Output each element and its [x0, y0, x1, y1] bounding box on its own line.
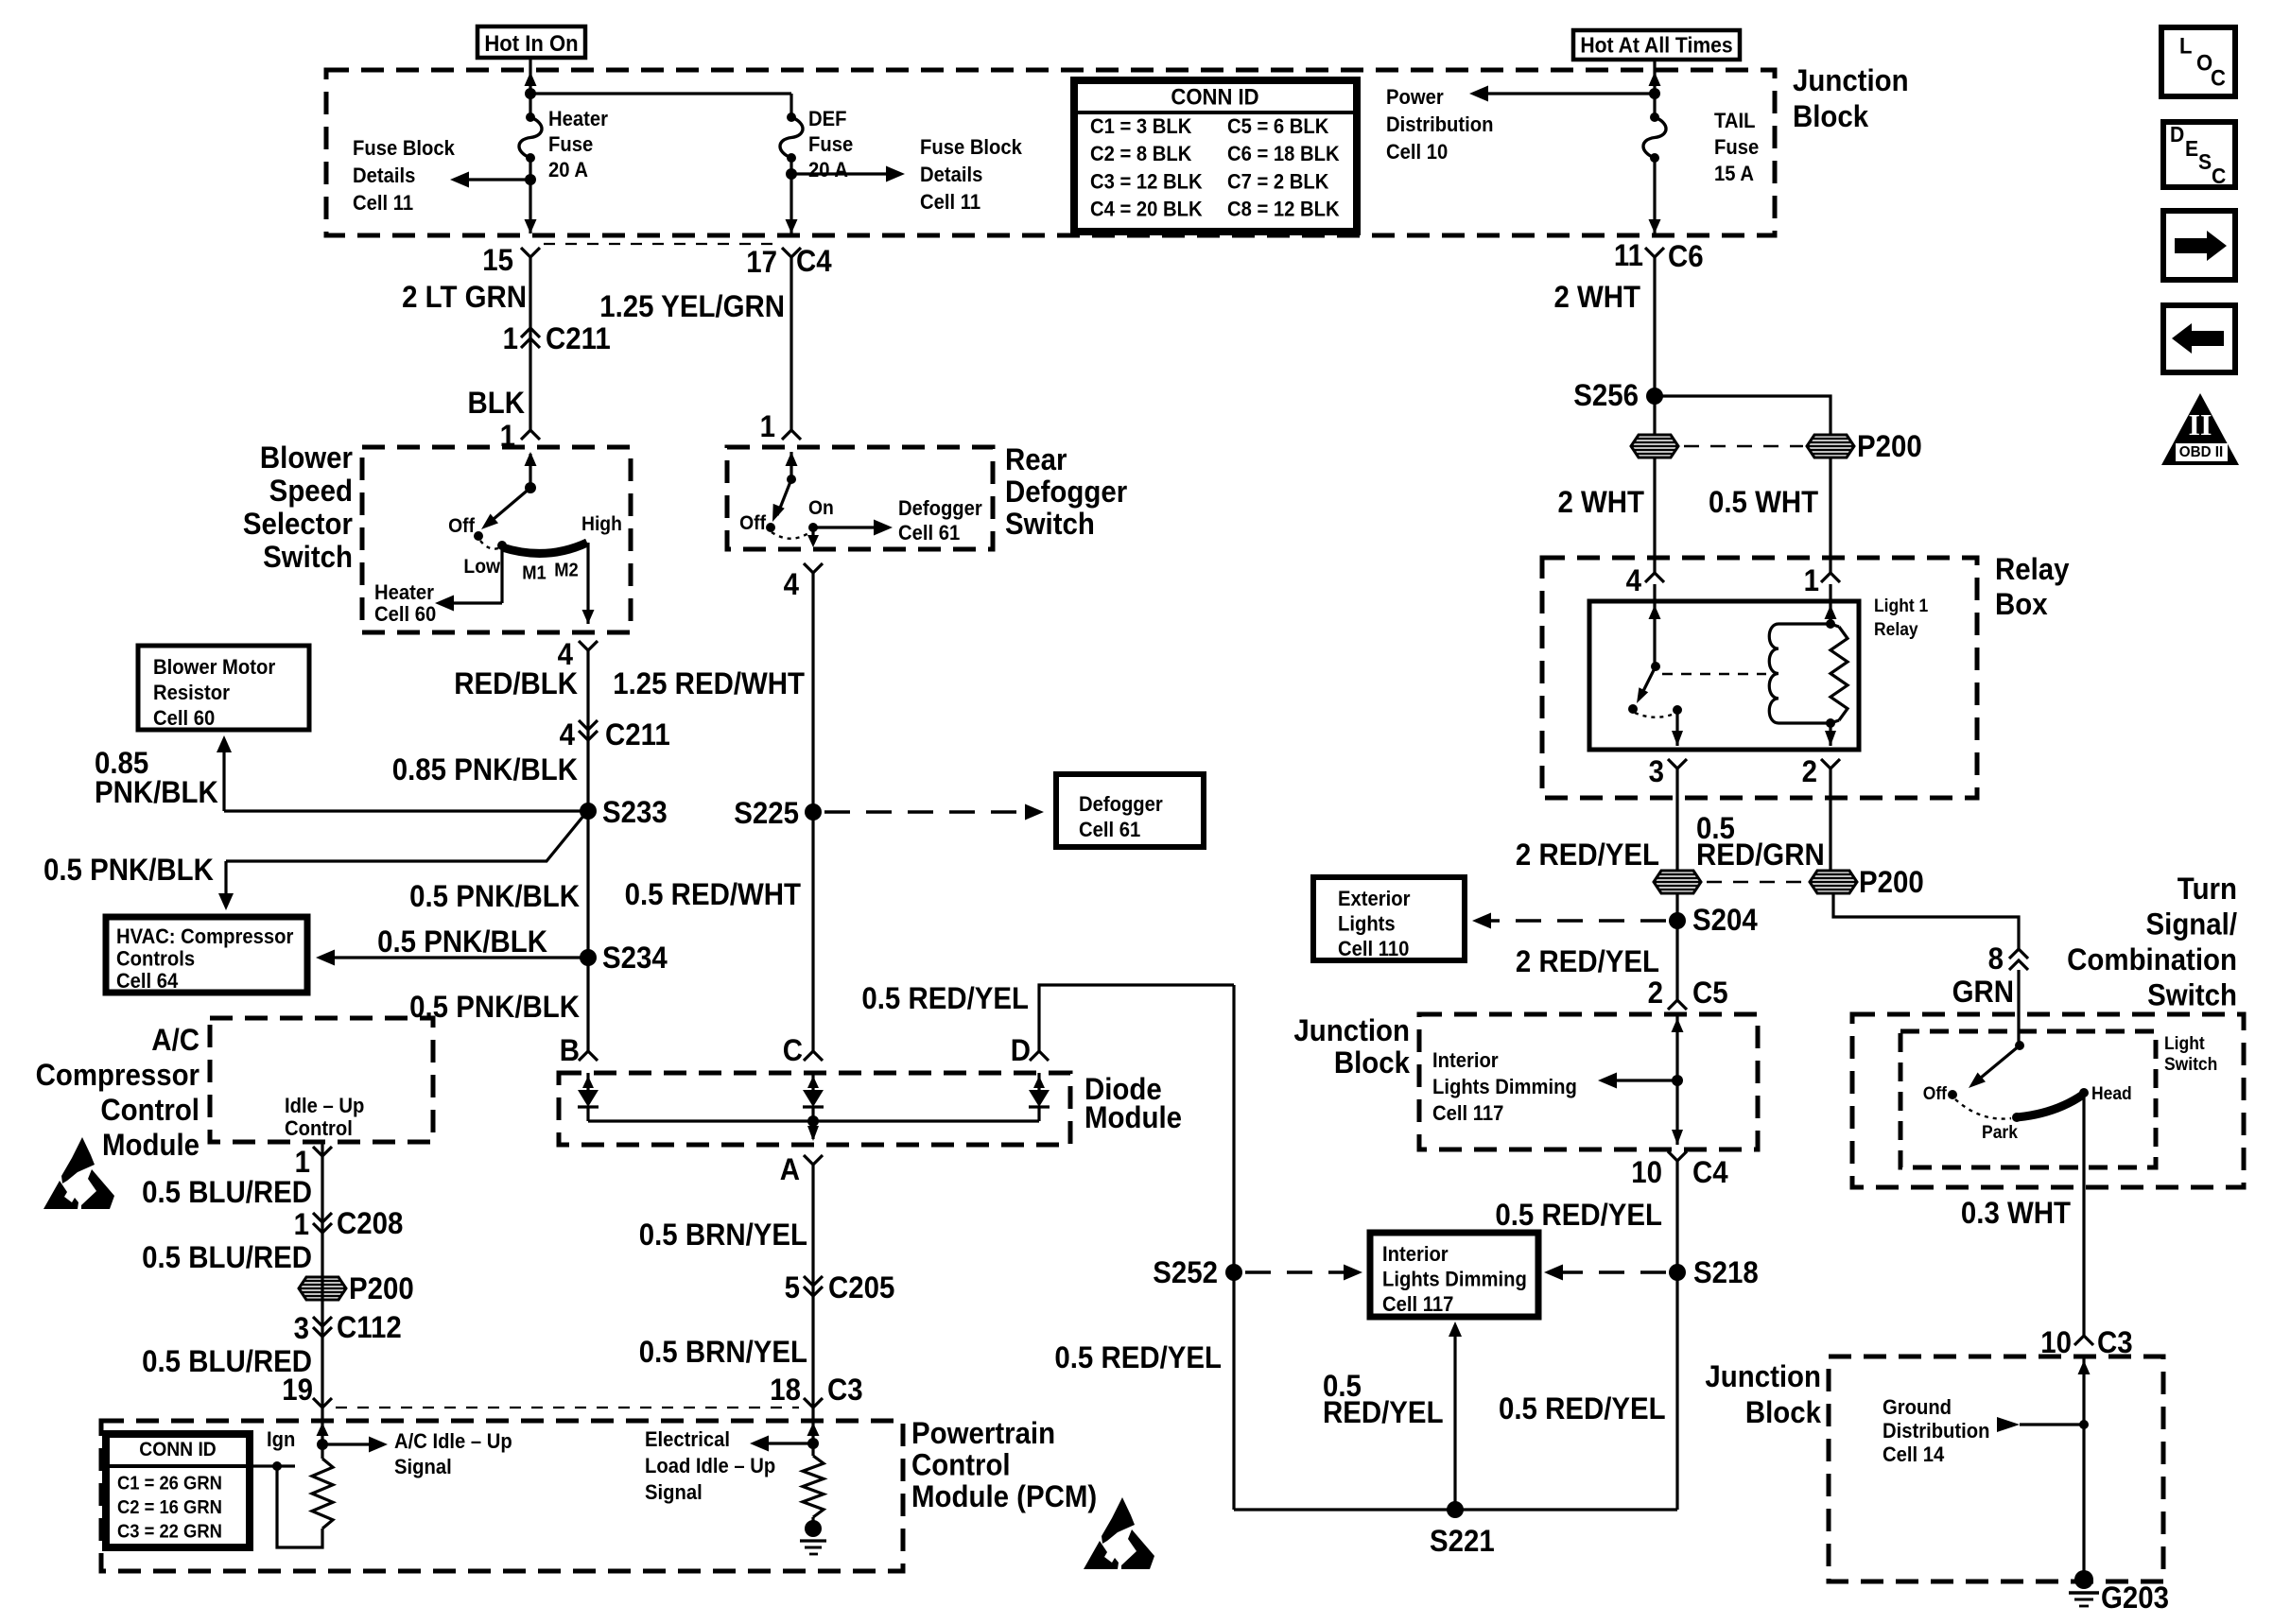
wire TAIL fuse exits junction block [1649, 219, 1661, 233]
connector C211 pin 4 [579, 720, 598, 730]
svg-text:C8 = 12 BLK: C8 = 12 BLK [1227, 199, 1340, 221]
light switch arm arrow [1975, 1045, 2020, 1082]
svg-text:2 WHT: 2 WHT [1557, 485, 1644, 519]
svg-text:C6: C6 [1668, 239, 1704, 273]
connector pin 2 C5 into junction block [1668, 1000, 1687, 1010]
svg-text:2: 2 [1802, 754, 1817, 788]
svg-text:8: 8 [1988, 942, 2004, 976]
svg-text:A: A [780, 1152, 800, 1186]
svg-text:S256: S256 [1573, 378, 1639, 412]
wire through junction block with up arrow [1675, 1016, 1678, 1080]
wire 1.25 YEL/GRN [789, 257, 792, 430]
wire into blower switch with up arrow [529, 454, 531, 488]
relay contact (NC) [1628, 704, 1638, 714]
node coil top [1826, 619, 1835, 629]
svg-text:Turn: Turn [2178, 872, 2237, 906]
wire 18 into PCM with up arrow [811, 1408, 814, 1443]
node S204 [1675, 893, 1678, 1000]
label box Hot At All Times [1573, 30, 1740, 60]
wire heater fuse exits junction block [525, 219, 537, 233]
dotted travel arc (relay contacts) [1635, 713, 1674, 717]
svg-text:Control: Control [911, 1447, 1011, 1481]
icon LOC [2161, 27, 2235, 96]
svg-text:Fuse Block: Fuse Block [353, 137, 455, 160]
svg-text:C3: C3 [827, 1373, 863, 1407]
connector P200 pair (front harness) [1654, 871, 1701, 893]
node blower switch pivot [525, 482, 536, 493]
svg-text:0.5 PNK/BLK: 0.5 PNK/BLK [409, 879, 580, 913]
relay box dashed outline [1542, 558, 1977, 798]
svg-text:Power: Power [1386, 86, 1444, 109]
svg-text:0.5 RED/YEL: 0.5 RED/YEL [1054, 1340, 1222, 1374]
svg-text:Cell 117: Cell 117 [1382, 1293, 1453, 1316]
diode under pin B [586, 1073, 589, 1090]
switch arm arrow to Off [487, 488, 530, 525]
svg-text:0.5 BRN/YEL: 0.5 BRN/YEL [639, 1218, 807, 1252]
svg-text:Low: Low [463, 557, 500, 579]
dotted travel arc Off-Low (blower) [480, 541, 498, 549]
connector pin 18 C3 into PCM [804, 1398, 823, 1408]
junction block (top) dashed outline [326, 70, 1775, 235]
svg-text:0.3 WHT: 0.3 WHT [1961, 1196, 2071, 1230]
svg-text:Light: Light [2164, 1032, 2205, 1053]
svg-text:A/C Idle – Up: A/C Idle – Up [394, 1430, 512, 1453]
svg-text:2 RED/YEL: 2 RED/YEL [1516, 838, 1659, 872]
powertrain control module dashed box [101, 1421, 903, 1571]
svg-text:Heater: Heater [374, 581, 434, 604]
svg-text:C3 = 22 GRN: C3 = 22 GRN [117, 1522, 222, 1543]
svg-text:Details: Details [920, 164, 982, 186]
arrow to A/C Idle-Up Signal [322, 1443, 382, 1445]
svg-text:C208: C208 [337, 1206, 403, 1240]
wire 0.5 RED/YEL from diode pin D [1030, 1051, 1049, 1061]
svg-text:Blower Motor: Blower Motor [153, 656, 275, 679]
svg-text:Module: Module [102, 1128, 200, 1162]
svg-text:Hot At All Times: Hot At All Times [1580, 32, 1732, 57]
wire 0.5 BRN/YEL upper [811, 1165, 814, 1408]
svg-text:Rear: Rear [1005, 442, 1067, 476]
svg-text:Resistor: Resistor [153, 682, 230, 704]
terminal Off (defogger) [766, 523, 775, 532]
svg-text:Cell 11: Cell 11 [920, 191, 980, 214]
svg-text:M1: M1 [522, 563, 547, 584]
node DEF fuse output [786, 168, 797, 180]
svg-text:S: S [2198, 149, 2212, 174]
svg-text:11: 11 [1614, 238, 1643, 272]
node S225 [805, 803, 822, 821]
svg-text:S234: S234 [602, 941, 668, 975]
wire 0.5 RED/GRN [1829, 769, 1831, 872]
connector pin 15 (C4) [521, 248, 540, 257]
svg-text:On: On [808, 498, 834, 520]
svg-text:C: C [783, 1033, 803, 1067]
svg-text:P200: P200 [1857, 429, 1922, 463]
node ground distribution tap [2079, 1420, 2089, 1429]
dashed arrow S204 to Exterior Lights [1482, 919, 1666, 923]
dashed arrow S252 to Interior Lights Dimming [1245, 1270, 1353, 1274]
svg-text:CONN ID: CONN ID [139, 1440, 216, 1461]
connector C205 pin 5 [804, 1276, 823, 1286]
label box Hot In On [477, 26, 585, 58]
light switch dashed box [1900, 1031, 2156, 1167]
svg-text:GRN: GRN [1952, 975, 2014, 1009]
svg-text:S225: S225 [734, 796, 799, 830]
diode under pin D [1037, 1073, 1040, 1090]
svg-text:Block: Block [1334, 1045, 1411, 1080]
connector pin 3 out of relay box [1668, 759, 1687, 769]
wire Ign feed from CONN ID [250, 1464, 295, 1467]
svg-text:Junction: Junction [1793, 63, 1909, 97]
svg-text:4: 4 [560, 717, 575, 752]
svg-text:C7 = 2 BLK: C7 = 2 BLK [1227, 171, 1329, 194]
svg-text:Switch: Switch [263, 540, 353, 574]
connector pin 17 C4 [782, 248, 801, 257]
svg-text:S218: S218 [1693, 1255, 1759, 1289]
svg-text:0.5 RED/YEL: 0.5 RED/YEL [1499, 1391, 1666, 1425]
svg-text:Distribution: Distribution [1883, 1420, 1989, 1443]
svg-text:C112: C112 [337, 1310, 402, 1344]
svg-text:RED/BLK: RED/BLK [454, 666, 578, 700]
svg-text:C6 = 18 BLK: C6 = 18 BLK [1227, 143, 1340, 165]
connector pin 19 into PCM [313, 1398, 332, 1408]
svg-text:Heater: Heater [548, 108, 608, 130]
wire 0.5 WHT [1829, 458, 1831, 573]
svg-text:E: E [2185, 136, 2198, 161]
terminal Head (light switch) [2079, 1088, 2089, 1097]
svg-text:DEF: DEF [808, 108, 847, 130]
svg-text:Off: Off [1923, 1082, 1948, 1103]
svg-text:L: L [2179, 32, 2192, 58]
fuse DEF Fuse 20 A [780, 117, 803, 158]
svg-text:Signal: Signal [645, 1481, 703, 1504]
svg-text:3: 3 [294, 1311, 309, 1345]
svg-text:C2 = 16 GRN: C2 = 16 GRN [117, 1498, 222, 1519]
wire diode bus [588, 1119, 1039, 1122]
svg-text:Switch: Switch [2147, 977, 2237, 1011]
connector pin 1 into blower switch [521, 430, 540, 440]
arrow On to Defogger Cell 61 [813, 526, 885, 528]
svg-text:Head: Head [2091, 1082, 2132, 1103]
wire from Hot At All Times into junction block [1653, 60, 1656, 115]
wire On output exits defogger switch [811, 527, 814, 542]
svg-text:Switch: Switch [1005, 507, 1095, 541]
component box Blower Motor Resistor Cell 60 [138, 646, 309, 730]
connector pin 1 out of A/C module [313, 1147, 332, 1156]
svg-text:Light 1: Light 1 [1874, 595, 1928, 615]
connector P200 pair (IP harness) [1631, 435, 1678, 458]
arrow to Fuse Block Details Cell 11 (left) [456, 178, 530, 181]
svg-text:0.5 RED/YEL: 0.5 RED/YEL [861, 981, 1029, 1015]
svg-text:Lights Dimming: Lights Dimming [1432, 1076, 1577, 1098]
svg-text:1: 1 [503, 321, 518, 355]
svg-text:Electrical: Electrical [645, 1428, 730, 1451]
connector P200 (A/C module harness) [299, 1277, 346, 1300]
wire into light switch [2017, 970, 2020, 1045]
node heater fuse output [525, 174, 536, 185]
svg-text:Cell 11: Cell 11 [353, 192, 413, 215]
svg-text:C3 = 12 BLK: C3 = 12 BLK [1090, 171, 1203, 194]
svg-text:S252: S252 [1153, 1255, 1218, 1289]
relay coil [1778, 622, 1831, 625]
blower speed selector switch dashed box [362, 447, 631, 632]
wire 2 LT GRN [529, 257, 531, 430]
svg-text:Control: Control [100, 1093, 200, 1127]
wiper arc Low-M1-M2-High (blower) [502, 543, 587, 553]
wire 2 WHT (TAIL) [1653, 257, 1656, 435]
svg-text:Fuse: Fuse [548, 133, 593, 156]
connector pin 4 (blower out) [579, 641, 598, 650]
svg-text:C1 = 26 GRN: C1 = 26 GRN [117, 1474, 222, 1494]
node S233 [580, 803, 597, 820]
dashed arrow S218 to Interior Lights Dimming [1553, 1270, 1666, 1274]
svg-text:Box: Box [1995, 587, 2048, 621]
svg-text:15: 15 [482, 243, 513, 277]
ground G203 [2074, 1570, 2093, 1589]
A/C compressor control module dashed box [210, 1018, 433, 1142]
wire exits junction block down [1675, 1080, 1678, 1145]
svg-text:BLK: BLK [468, 386, 525, 420]
node diode bus junction [807, 1115, 819, 1127]
svg-text:C211: C211 [605, 717, 670, 752]
arrow S234 to HVAC [321, 956, 588, 959]
svg-text:C4: C4 [1692, 1155, 1728, 1189]
svg-text:Combination: Combination [2067, 942, 2237, 976]
svg-text:Distribution: Distribution [1386, 113, 1493, 136]
rear defogger switch dashed box [727, 447, 993, 549]
svg-text:C5 = 6 BLK: C5 = 6 BLK [1227, 115, 1329, 138]
svg-text:Load Idle – Up: Load Idle – Up [645, 1455, 775, 1477]
diode module dashed box [559, 1073, 1070, 1145]
node coil bottom [1826, 718, 1835, 728]
svg-text:High: High [581, 514, 622, 536]
svg-text:C1 = 3 BLK: C1 = 3 BLK [1090, 115, 1192, 138]
terminal Park (light switch) [2012, 1113, 2021, 1122]
svg-text:20 A: 20 A [548, 159, 588, 181]
svg-text:Cell 61: Cell 61 [898, 522, 960, 544]
svg-text:Lights: Lights [1338, 913, 1396, 936]
svg-text:0.5 PNK/BLK: 0.5 PNK/BLK [43, 853, 214, 887]
arrow S221 up to Interior Lights Dimming [1453, 1325, 1456, 1510]
wire 2 WHT lower [1653, 458, 1656, 573]
connector pin B into diode module [579, 1051, 598, 1061]
svg-text:Ground: Ground [1883, 1396, 1952, 1419]
node S234 [580, 949, 597, 966]
resistor (A/C idle-up) [321, 1444, 323, 1459]
svg-text:2: 2 [1648, 976, 1663, 1010]
svg-text:B: B [560, 1033, 580, 1067]
icon forward arrow [2163, 211, 2235, 280]
svg-text:Control: Control [285, 1117, 353, 1140]
svg-text:Defogger: Defogger [1079, 793, 1163, 816]
svg-text:C4 = 20 BLK: C4 = 20 BLK [1090, 199, 1203, 221]
svg-text:Relay: Relay [1874, 618, 1918, 639]
svg-text:1: 1 [1804, 563, 1819, 597]
node light switch pivot [2015, 1041, 2024, 1050]
svg-text:17: 17 [746, 245, 777, 279]
node interior lights dimming tap [1672, 1075, 1683, 1086]
diode under pin C [811, 1073, 814, 1090]
svg-text:Idle – Up: Idle – Up [285, 1095, 364, 1117]
svg-text:1.25 YEL/GRN: 1.25 YEL/GRN [599, 289, 785, 323]
svg-text:C5: C5 [1692, 976, 1728, 1010]
svg-text:Cell 117: Cell 117 [1432, 1102, 1503, 1125]
svg-text:0.5 BLU/RED: 0.5 BLU/RED [142, 1240, 312, 1274]
svg-text:C205: C205 [828, 1270, 894, 1304]
icon back arrow [2163, 305, 2235, 372]
svg-text:II: II [2189, 407, 2212, 441]
svg-text:Cell 10: Cell 10 [1386, 141, 1448, 164]
wire 8 GRN from P200 [1833, 893, 2019, 949]
connector pin 11 C6 [1645, 248, 1664, 257]
terminal Low (blower) [497, 541, 507, 550]
svg-text:Cell 61: Cell 61 [1079, 819, 1140, 841]
wire Ign loop [277, 1466, 322, 1547]
turn signal/combination switch dashed box [1852, 1014, 2244, 1187]
terminal Off (light switch) [1948, 1090, 1957, 1099]
wire 19 into PCM with up arrow [321, 1408, 323, 1444]
svg-text:D: D [2170, 122, 2184, 147]
svg-text:C: C [2211, 64, 2226, 90]
connector pin 2 out of relay box [1821, 759, 1840, 769]
component box Exterior Lights Cell 110 [1313, 877, 1465, 960]
svg-text:C4: C4 [796, 244, 832, 278]
svg-text:10: 10 [1631, 1155, 1662, 1189]
svg-text:M2: M2 [554, 561, 579, 581]
svg-text:Junction: Junction [1293, 1013, 1410, 1047]
node heater/DEF branch junction [525, 88, 536, 99]
wire diode module output A [811, 1121, 814, 1139]
svg-text:0.5 BRN/YEL: 0.5 BRN/YEL [639, 1335, 807, 1369]
svg-text:CONN ID: CONN ID [1171, 83, 1258, 109]
svg-text:HVAC: Compressor: HVAC: Compressor [116, 925, 293, 948]
svg-text:Ign: Ign [267, 1428, 295, 1451]
connector pin 10 C4 out of junction block [1668, 1151, 1687, 1161]
svg-text:Cell 64: Cell 64 [116, 970, 178, 993]
ESD sensitivity symbol (PCM) [1102, 1497, 1135, 1544]
svg-text:5: 5 [785, 1270, 800, 1304]
svg-text:PNK/BLK: PNK/BLK [95, 775, 218, 809]
svg-text:Details: Details [353, 164, 415, 187]
wire 0.5 BLU/RED #1 [321, 1142, 323, 1408]
svg-text:Block: Block [1793, 99, 1869, 133]
dashed arrow S225 to Defogger Cell 61 [824, 810, 1034, 814]
fuse TAIL Fuse 15 A [1643, 117, 1666, 158]
component box Defogger Cell 61 [1056, 774, 1204, 847]
svg-text:Lights Dimming: Lights Dimming [1382, 1269, 1527, 1291]
wire relay pin 4 to switch [1653, 584, 1656, 666]
svg-text:Fuse Block: Fuse Block [920, 136, 1022, 159]
wire relay pin 3 out [1675, 710, 1678, 746]
svg-text:3: 3 [1649, 754, 1664, 788]
svg-text:Cell 60: Cell 60 [153, 707, 215, 730]
svg-text:Controls: Controls [116, 948, 195, 971]
wire 2 RED/YEL [1675, 769, 1678, 872]
svg-text:Fuse: Fuse [1714, 136, 1759, 159]
svg-text:4: 4 [784, 567, 799, 601]
svg-text:Blower: Blower [260, 441, 353, 475]
connector pin 1 into defogger switch [782, 430, 801, 440]
svg-text:Signal: Signal [394, 1456, 452, 1478]
ESD sensitivity symbol (A/C module) [61, 1137, 95, 1183]
wire Low to Heater Cell 60 [500, 547, 503, 603]
node S256 [1646, 388, 1663, 405]
arrow to Electrical Load Idle-Up Signal [755, 1442, 813, 1444]
svg-text:Signal/: Signal/ [2146, 907, 2238, 941]
connector pin 8 (combination switch) [2009, 949, 2028, 959]
svg-text:S221: S221 [1430, 1524, 1495, 1558]
relay switch arm arrow [1641, 666, 1656, 695]
svg-text:A/C: A/C [151, 1023, 200, 1057]
svg-text:20 A: 20 A [808, 159, 848, 181]
svg-text:C2 = 8 BLK: C2 = 8 BLK [1090, 143, 1192, 165]
svg-text:1: 1 [760, 409, 775, 443]
connector pin A (diode module out) [804, 1155, 823, 1165]
svg-text:Exterior: Exterior [1338, 888, 1410, 910]
svg-text:TAIL: TAIL [1714, 110, 1756, 132]
svg-text:Relay: Relay [1995, 552, 2070, 586]
terminal Off (blower) [474, 531, 483, 541]
relay coil shunt resistor [1831, 624, 1839, 627]
svg-text:1: 1 [294, 1207, 309, 1241]
connector boundary dashed line C4 [544, 243, 778, 245]
svg-text:Module: Module [1084, 1100, 1182, 1134]
svg-text:Defogger: Defogger [898, 497, 982, 520]
node A/C idle-up junction [317, 1439, 328, 1450]
dotted travel arc Off-On (defogger) [772, 531, 811, 539]
wire S256 branch to P200 [1655, 396, 1831, 435]
svg-text:0.5 WHT: 0.5 WHT [1709, 485, 1818, 519]
node electrical load idle-up junction [807, 1438, 819, 1449]
resistor (electrical load idle-up) [811, 1443, 814, 1456]
node defogger switch pivot [787, 475, 796, 484]
svg-text:Switch: Switch [2164, 1053, 2217, 1074]
connector C211 pin 1 [521, 328, 540, 337]
node Ign junction [272, 1461, 282, 1471]
wire branch to DEF fuse [530, 92, 791, 95]
wire 0.5 RED/YEL to S218 [1675, 1161, 1678, 1510]
wire into ground block with up arrow [2082, 1358, 2085, 1580]
terminal On (defogger) [808, 523, 818, 532]
node TAIL branch junction [1649, 88, 1660, 99]
svg-text:0.5 RED/WHT: 0.5 RED/WHT [625, 877, 802, 911]
svg-text:Cell 110: Cell 110 [1338, 938, 1409, 960]
component box Interior Lights Dimming Cell 117 [1370, 1233, 1538, 1317]
junction block (ground) dashed outline [1829, 1356, 2163, 1581]
svg-text:Junction: Junction [1705, 1359, 1821, 1393]
svg-text:Cell 14: Cell 14 [1883, 1443, 1944, 1466]
svg-text:0.5 PNK/BLK: 0.5 PNK/BLK [377, 924, 547, 959]
icon OBD II triangle [2161, 393, 2239, 465]
svg-text:Defogger: Defogger [1005, 475, 1127, 509]
wire relay pin 1 to coil [1829, 584, 1831, 624]
svg-text:Selector: Selector [243, 507, 353, 541]
connector pin 4 into relay box [1645, 573, 1664, 582]
svg-text:D: D [1011, 1033, 1031, 1067]
svg-text:Fuse: Fuse [808, 133, 853, 156]
wire DEF fuse exits junction block [786, 219, 798, 233]
svg-text:G203: G203 [2101, 1581, 2169, 1615]
svg-text:2 WHT: 2 WHT [1553, 280, 1640, 314]
switch arm arrow (defogger) [777, 479, 791, 515]
fuse Heater Fuse 20 A [519, 117, 542, 158]
svg-text:S233: S233 [602, 795, 668, 829]
connector pin 4 (defogger out) [804, 563, 823, 573]
svg-text:2 RED/YEL: 2 RED/YEL [1516, 944, 1659, 978]
svg-text:C211: C211 [546, 321, 611, 355]
dashed actuation link pivot-coil [1662, 673, 1766, 675]
svg-text:OBD II: OBD II [2179, 444, 2223, 460]
arrow to Interior Lights Dimming Cell 117 (in block) [1604, 1079, 1677, 1081]
